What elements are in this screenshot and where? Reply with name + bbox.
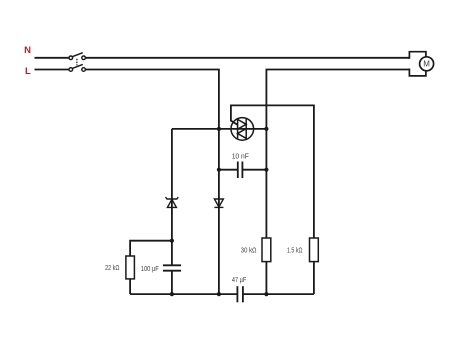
wire left branch upper <box>171 129 173 265</box>
resistor R1 22k <box>126 256 134 279</box>
wire C1 left lead <box>219 169 238 171</box>
svg-text:30 kΩ: 30 kΩ <box>241 248 257 255</box>
wire R1 bottom lead <box>129 279 131 294</box>
capacitor C3 47uF <box>237 286 243 302</box>
motor M1 <box>409 52 433 76</box>
triac U1 <box>231 118 254 141</box>
wire motor branch <box>266 70 410 129</box>
svg-text:22 kΩ: 22 kΩ <box>105 265 119 272</box>
junction node B <box>264 127 268 131</box>
junction node A <box>217 127 221 131</box>
wire bottom rail left <box>130 293 237 295</box>
resistor R2 30k <box>262 238 271 262</box>
capacitor C1 10nF <box>238 162 243 179</box>
svg-text:L: L <box>25 66 31 77</box>
resistor R3 1.5k <box>310 238 319 262</box>
wire gate <box>231 105 314 238</box>
wire bottom rail right <box>243 293 314 295</box>
wire R2 bottom lead <box>265 262 267 295</box>
wire R1 branch <box>130 241 172 256</box>
diode D2 <box>214 199 223 207</box>
wire R3 bottom lead <box>313 262 315 295</box>
switch S1 pole B <box>69 64 85 71</box>
junction node D <box>264 168 268 172</box>
svg-text:100 µF: 100 µF <box>141 266 159 273</box>
junction node C <box>217 168 221 172</box>
switch S1 pole A <box>69 53 85 60</box>
wire L to bus <box>85 70 219 129</box>
junction node E <box>170 239 174 243</box>
junction node G <box>217 292 221 296</box>
wire left branch lower <box>171 271 173 294</box>
svg-text:N: N <box>24 45 31 56</box>
svg-text:10 nF: 10 nF <box>232 154 249 161</box>
svg-text:47 µF: 47 µF <box>232 277 246 284</box>
wire mid bus down <box>218 129 220 294</box>
wire L input <box>35 69 70 71</box>
wire N input <box>35 57 70 59</box>
wire right bus down <box>265 129 267 238</box>
switch S1 mechanical link <box>76 59 78 66</box>
svg-text:1.5 kΩ: 1.5 kΩ <box>287 248 303 255</box>
zener diode D1 <box>166 197 179 207</box>
capacitor C2 100uF <box>163 265 181 270</box>
svg-text:M: M <box>423 60 430 69</box>
junction node H <box>264 292 268 296</box>
wire triac row <box>172 128 267 130</box>
wire C1 right lead <box>242 169 266 171</box>
wire N to motor <box>85 57 410 59</box>
junction node F <box>170 292 174 296</box>
